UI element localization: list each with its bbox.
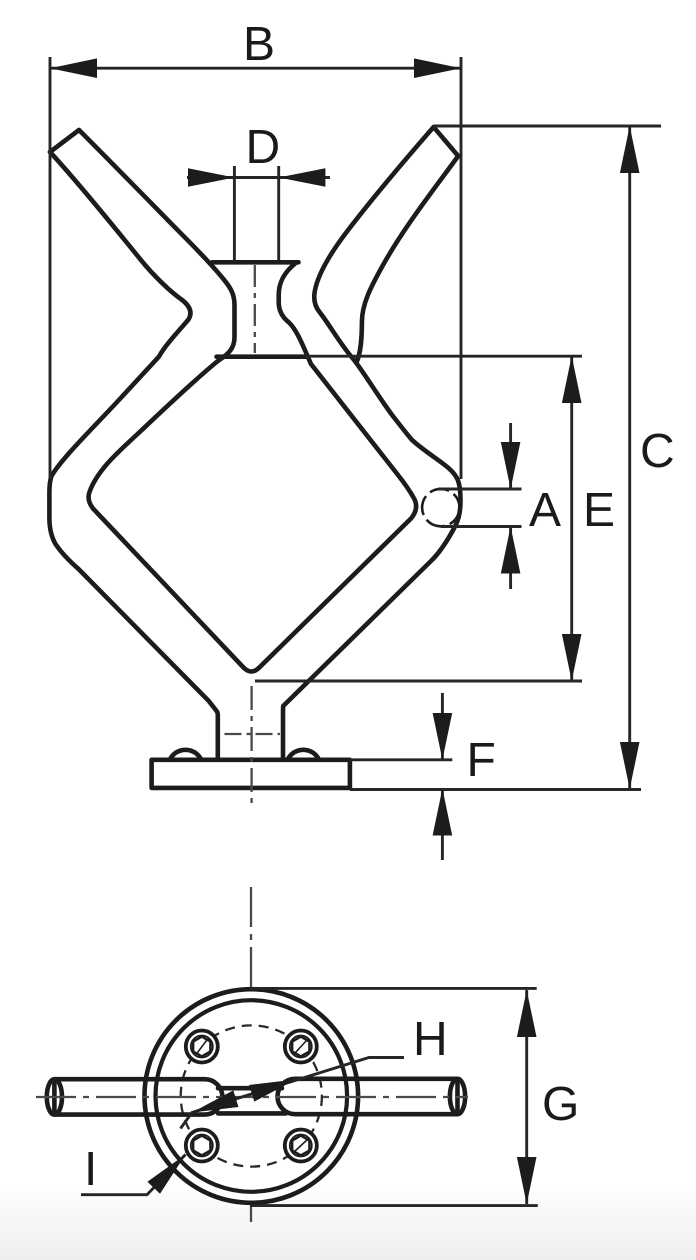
I leader: [81, 1155, 186, 1195]
vertical centerline: [250, 887, 252, 1222]
C dimension line: [628, 126, 631, 789]
svg-text:F: F: [466, 734, 495, 787]
C top extension line: [434, 125, 661, 128]
G bottom extension line: [250, 1204, 538, 1207]
right bolt dome on plate: [288, 750, 319, 760]
H leader: [181, 1058, 405, 1129]
tube section circle (dashed) at right corner: [422, 489, 459, 526]
right horn tip face: [434, 127, 459, 156]
left tube outer silhouette (tip, neck apex, left corner, to stem): [49, 152, 217, 758]
G dimension line: [525, 990, 528, 1204]
E dimension line: [570, 356, 573, 681]
A extension lines: [438, 489, 522, 527]
base plate: [152, 760, 350, 788]
C arrowheads: [620, 126, 640, 173]
G top extension line: [250, 987, 537, 990]
svg-text:H: H: [413, 1013, 448, 1066]
svg-text:G: G: [542, 1078, 579, 1131]
A dimension lines with outside arrows: [509, 423, 512, 589]
bolt circle (dashed): [181, 1025, 322, 1166]
right tube outer silhouette (tip, neck apex, right corner, to stem): [283, 127, 461, 758]
E top extension line: [305, 355, 582, 358]
F dimension arrows (outside): [441, 693, 444, 860]
stem centerline: [250, 686, 252, 806]
stem hidden cross line: [225, 733, 281, 735]
svg-text:I: I: [84, 1143, 97, 1196]
bolt top-right: [285, 1031, 317, 1063]
bolt top-left: [186, 1031, 218, 1063]
B arrowheads: [50, 58, 97, 78]
F top extension line: [350, 758, 452, 761]
svg-text:A: A: [529, 484, 561, 537]
horizontal centerline: [36, 1096, 468, 1098]
left tube (bottom view): [47, 1079, 223, 1114]
left bolt dome on plate: [170, 750, 201, 760]
D dimension line: [187, 176, 330, 179]
B extension lines: [50, 57, 461, 479]
B dimension line: [50, 67, 461, 70]
D arrowheads: [188, 168, 234, 187]
flange outer circle: [145, 989, 359, 1203]
G arrowheads: [517, 990, 537, 1037]
svg-text:C: C: [640, 425, 675, 478]
E arrowheads: [562, 356, 582, 403]
svg-text:B: B: [243, 18, 275, 71]
right tube (bottom view): [278, 1079, 466, 1114]
C bottom extension line (plate bottom extended): [350, 788, 641, 791]
D extension lines: [234, 166, 278, 260]
flange inner circle: [156, 1000, 348, 1192]
right tube inner-bend edge (wedge closing onto outer): [357, 156, 459, 363]
neck centerline: [254, 265, 256, 353]
left tube inner edge + inner ring + right boss wall (one outline): [79, 130, 416, 672]
E bottom extension line: [255, 680, 582, 683]
svg-text:D: D: [245, 121, 280, 174]
joint lines between tube ends: [218, 1088, 286, 1113]
left horn tip face: [50, 130, 79, 152]
bolt bottom-left: [186, 1130, 218, 1162]
svg-text:E: E: [583, 484, 615, 537]
boss top face: [212, 260, 298, 265]
bolt bottom-right: [285, 1130, 317, 1162]
boss bottom face: [217, 354, 307, 359]
